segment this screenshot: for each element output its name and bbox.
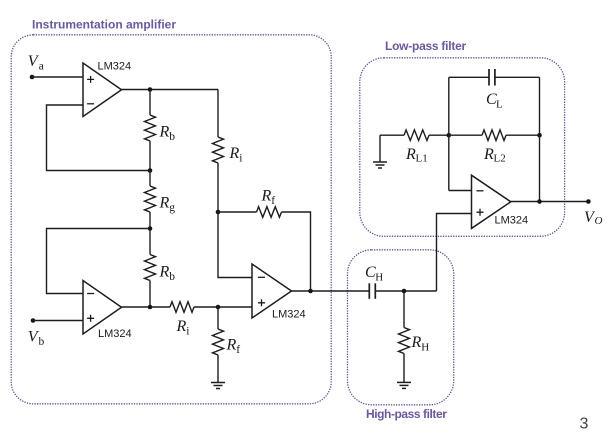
high-pass filter boundary box (348, 250, 454, 405)
wire RH top (403, 291, 405, 328)
op-amp U1 (83, 63, 122, 117)
svg-text:3: 3 (580, 416, 589, 433)
junction U1 output / Rb column (148, 87, 153, 92)
wire CH to corner (375, 290, 436, 292)
svg-text:f: f (236, 344, 240, 356)
svg-text:i: i (186, 326, 189, 338)
resistor Rb (upper) (145, 115, 156, 141)
svg-text:L: L (496, 99, 503, 111)
wire U3 output to CH (292, 290, 370, 292)
ground (low-pass RL1) (373, 135, 387, 168)
resistor Rf (horizontal feedback) (257, 207, 282, 218)
wire junction down to U3 inverting input (218, 212, 252, 278)
wire RL1 to junction (429, 134, 449, 136)
junction Ri/Rf vertical (216, 305, 221, 310)
wire CL branch left vertical (448, 77, 450, 190)
wire junction to Rf horizontal (218, 211, 257, 213)
wire U4 output to Vo (511, 201, 589, 203)
junction U4 output / feedback column (537, 199, 542, 204)
capacitor CL (489, 69, 495, 86)
svg-text:Low-pass filter: Low-pass filter (385, 39, 467, 53)
svg-text:R: R (159, 124, 170, 141)
junction Rb/Rg (148, 168, 153, 173)
svg-text:L2: L2 (494, 153, 506, 165)
wire RH to ground (403, 354, 405, 383)
svg-text:LM324: LM324 (98, 60, 132, 72)
resistor Ri (horizontal) (170, 302, 194, 313)
wire Ri to U3 noninverting input (194, 306, 252, 308)
wire Va to U1 noninverting input (32, 76, 83, 78)
svg-text:i: i (239, 153, 242, 165)
wire Rf to U3 output (282, 212, 311, 291)
wire output column right vertical (539, 77, 541, 201)
svg-text:R: R (159, 264, 170, 281)
junction RL1/RL2/CL/U4 inverting (447, 133, 452, 138)
wire Vb to U2 noninverting input (33, 320, 83, 322)
instrumentation amplifier boundary box (11, 35, 331, 404)
svg-text:R: R (405, 146, 416, 163)
op-amp U2 (83, 281, 122, 335)
wire RL2 to output column (506, 134, 540, 136)
ground (Rf) (211, 383, 225, 389)
svg-text:High-pass filter: High-pass filter (366, 407, 447, 421)
svg-text:R: R (229, 145, 240, 162)
resistor RL2 (482, 130, 506, 141)
wire Rb column top (149, 90, 151, 116)
wire U2 inverting feedback (47, 229, 151, 294)
wire U2 output (122, 306, 171, 308)
wire high-pass output up to U4 noninverting input (437, 214, 472, 292)
ground (RH) (397, 382, 411, 388)
resistor RH (399, 328, 410, 354)
resistor Rg (145, 186, 156, 212)
wire Rf to ground (217, 355, 219, 383)
wire U1 output to Ri column (122, 89, 219, 91)
svg-text:f: f (271, 195, 275, 207)
junction Rg/Rb lower (148, 226, 153, 231)
resistor Ri (vertical) (213, 137, 224, 163)
junction RL2/CL/output column (537, 133, 542, 138)
junction U3 output / feedback (308, 289, 313, 294)
svg-text:R: R (176, 318, 187, 335)
wire junction to Rb lower (149, 229, 151, 255)
junction U2 output / Rb column (148, 305, 153, 310)
svg-text:b: b (169, 131, 175, 143)
capacitor CH (369, 283, 375, 299)
resistor Rb (lower) (145, 255, 156, 281)
wire Rg to junction (149, 212, 151, 229)
resistor Rf (vertical) (213, 329, 224, 355)
svg-text:Instrumentation amplifier: Instrumentation amplifier (32, 18, 176, 32)
wire CL top left (449, 76, 489, 78)
svg-text:b: b (39, 336, 45, 348)
wire Rb lower to U2 output wire (149, 281, 151, 308)
wire junction to RL2 (449, 134, 482, 136)
op-amp U3 (252, 264, 292, 318)
resistor RL1 (404, 130, 429, 141)
svg-text:R: R (226, 337, 237, 354)
wire CL top right (495, 76, 540, 78)
node Vo output terminal (586, 199, 591, 204)
wire junction to Rf vertical (217, 307, 219, 329)
svg-text:R: R (483, 146, 494, 163)
wire Ri column (217, 90, 219, 138)
svg-text:LM324: LM324 (98, 328, 132, 340)
svg-text:R: R (261, 188, 272, 205)
wire ground to RL1 (380, 134, 404, 136)
wire left vertical to U4 inverting input (449, 190, 472, 192)
svg-text:g: g (169, 202, 175, 214)
svg-text:LM324: LM324 (495, 215, 529, 227)
svg-text:H: H (375, 272, 383, 284)
node Va input terminal (30, 75, 35, 80)
junction Ri/Rf/U3 inverting (216, 210, 221, 215)
svg-text:R: R (411, 334, 422, 351)
low-pass filter boundary box (360, 58, 565, 237)
svg-text:L1: L1 (416, 153, 428, 165)
node Vb input terminal (31, 318, 36, 323)
svg-text:R: R (159, 195, 170, 212)
wire Ri to junction (217, 163, 219, 212)
svg-text:a: a (39, 61, 44, 73)
op-amp U4 (472, 175, 511, 228)
svg-text:b: b (169, 271, 175, 283)
wire junction to Rg (149, 171, 151, 187)
wire Rb to junction (149, 141, 151, 171)
wire U1 inverting feedback (47, 105, 151, 171)
svg-text:LM324: LM324 (272, 309, 306, 321)
svg-text:O: O (595, 215, 603, 227)
junction CH/RH (402, 289, 407, 294)
svg-text:H: H (421, 342, 429, 354)
